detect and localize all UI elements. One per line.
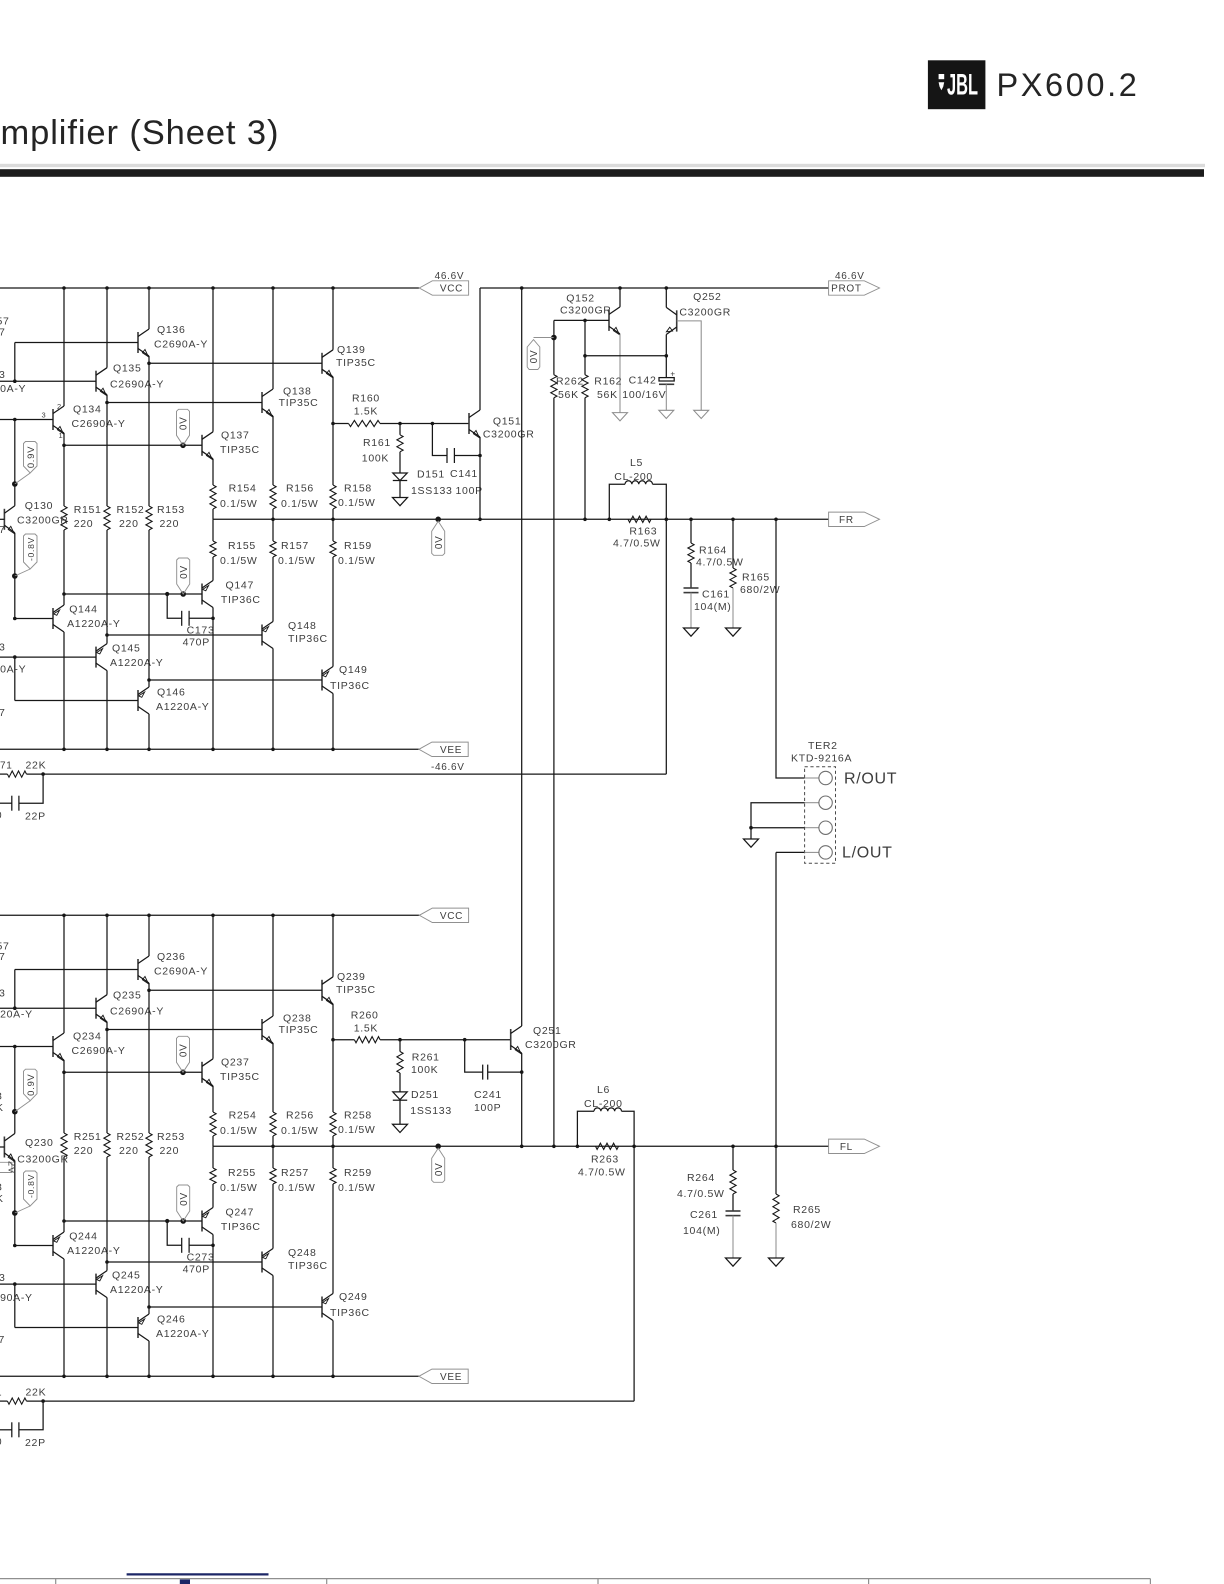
- junction col6 VEE: [331, 1375, 335, 1379]
- junction -0.8V flag node: [12, 573, 18, 579]
- junction col3 VEE: [147, 1375, 151, 1379]
- junction node A on R162: [583, 354, 587, 358]
- wire Q238 base line: [107, 1029, 262, 1031]
- svg-text:D151: D151: [417, 469, 445, 481]
- resistor R165 680/2W: [730, 519, 780, 628]
- ground for Q152 emitter: [613, 413, 628, 421]
- junction Q244 base on bias line: [13, 1244, 17, 1248]
- junction Q247 base tap: [62, 1219, 66, 1223]
- transistor Q130 C3200GR: [4, 500, 68, 534]
- svg-text:Q135: Q135: [113, 363, 142, 375]
- capacitor C241 100P: [465, 1040, 522, 1114]
- junction col5 VEE: [271, 748, 275, 752]
- wire TER2 ground pins: [751, 803, 805, 828]
- footer tick 1: [55, 1579, 57, 1584]
- svg-text:46.6V: 46.6V: [835, 271, 865, 282]
- wire Q246 collector to VEE: [148, 1341, 150, 1376]
- svg-text:R155: R155: [228, 540, 256, 552]
- svg-text:1: 1: [0, 1388, 2, 1399]
- wire Q234 emitter elbow: [63, 1060, 65, 1072]
- ground for TER2: [744, 839, 759, 847]
- wire Q136 emitter to node: [148, 356, 150, 363]
- resistor R154 0.1/5W: [210, 483, 258, 511]
- svg-text:R252: R252: [117, 1131, 145, 1143]
- wire output rail to R257: [272, 1146, 274, 1168]
- svg-text:-0.8V: -0.8V: [26, 537, 36, 561]
- svg-text:22K: 22K: [26, 760, 47, 772]
- wire Q149 collector to VEE: [332, 694, 334, 750]
- junction R262 on FL rail: [552, 1145, 556, 1149]
- ground for R265: [769, 1258, 784, 1266]
- transistor Q144 A1220A-Y: [53, 604, 121, 632]
- wire Q239 base line: [149, 989, 322, 991]
- svg-text:C2690A-Y: C2690A-Y: [0, 1292, 33, 1304]
- junction on VCC rail x273: [271, 914, 275, 918]
- svg-text:0.1/5W: 0.1/5W: [278, 1182, 315, 1194]
- junction Q148 base tap: [105, 633, 109, 637]
- svg-text:R259: R259: [344, 1167, 372, 1179]
- svg-text:0.1/5W: 0.1/5W: [338, 1182, 375, 1194]
- junction Q251 collector on PROT rail: [520, 286, 524, 290]
- junction on VCC rail x213: [211, 286, 215, 290]
- svg-text:L5: L5: [630, 457, 643, 469]
- wire output rail to R157: [272, 519, 274, 541]
- wire col2 VCC to Q235 collector: [106, 915, 108, 994]
- svg-text:220: 220: [119, 518, 139, 530]
- svg-text:R256: R256: [286, 1110, 314, 1122]
- svg-text:8: 8: [0, 1182, 3, 1194]
- svg-text:R157: R157: [281, 540, 309, 552]
- junction Q151 emitter on output rail: [478, 518, 482, 522]
- junction feedback 22P tap: [41, 1399, 45, 1403]
- svg-text:680/2W: 680/2W: [791, 1219, 831, 1231]
- wire Q146 collector to VEE: [148, 714, 150, 749]
- svg-text:A1220A-Y: A1220A-Y: [110, 657, 163, 669]
- footer navy line: [127, 1573, 269, 1575]
- svg-text:2: 2: [57, 402, 62, 411]
- svg-text:FL: FL: [840, 1142, 853, 1153]
- transistor Q138 TIP35C: [262, 386, 318, 417]
- net flag 0.9V: [15, 1069, 37, 1112]
- resistor R152 220: [104, 504, 145, 530]
- svg-text:+: +: [670, 370, 675, 379]
- junction C173 top tap: [211, 617, 215, 621]
- svg-text:56K: 56K: [597, 389, 618, 401]
- svg-text:0.1/5W: 0.1/5W: [220, 1125, 257, 1137]
- resistor R151 220: [61, 504, 102, 530]
- svg-text:C3200GR: C3200GR: [17, 515, 69, 527]
- transistor Q245 A1220A-Y: [96, 1270, 163, 1298]
- output flag FL: [829, 1139, 880, 1153]
- wire col1 to R251: [63, 1072, 65, 1133]
- wire col5 VCC to Q138 collector: [272, 288, 274, 389]
- wire Q247 base line: [64, 1220, 202, 1222]
- svg-text:100K: 100K: [362, 453, 389, 465]
- wire Q138 base line: [107, 402, 262, 404]
- svg-text:JBL: JBL: [947, 69, 978, 102]
- svg-text:0.1/5W: 0.1/5W: [220, 498, 257, 510]
- wire R260 to Q251 base: [380, 1039, 511, 1041]
- junction Q249 base tap: [147, 1305, 151, 1309]
- junction Q139 base node: [147, 362, 151, 366]
- junction Q152 collector on PROT rail: [618, 286, 622, 290]
- svg-text:R159: R159: [344, 540, 372, 552]
- wire Q249 base line: [149, 1306, 322, 1308]
- connector TER2 KTD-9216A outline: [805, 767, 836, 863]
- svg-text:0V: 0V: [434, 535, 445, 549]
- svg-text:Q146: Q146: [157, 687, 186, 699]
- svg-text:4.7/0.5W: 4.7/0.5W: [578, 1167, 626, 1179]
- transistor Q139 TIP35C: [322, 344, 376, 378]
- svg-text:100K: 100K: [411, 1064, 438, 1076]
- resistor R153 220: [146, 504, 185, 530]
- wire R160 to Q151 base: [380, 423, 469, 425]
- resistor R253 220: [146, 1131, 185, 1157]
- svg-text:A1220A-Y: A1220A-Y: [156, 1328, 209, 1340]
- net flag 0V at Q247 base: [177, 1185, 190, 1221]
- wire R256 to output rail: [272, 1136, 274, 1146]
- svg-text:A1220A-Y: A1220A-Y: [0, 1009, 33, 1021]
- wire Q237 emitter to R254: [212, 1086, 214, 1112]
- wire bias vertical top: [14, 970, 16, 1009]
- capacitor C141 100P: [432, 424, 482, 498]
- svg-text:TIP35C: TIP35C: [279, 397, 319, 409]
- junction 0.9V flag node: [12, 481, 18, 487]
- svg-text:2V: 2V: [6, 1161, 17, 1174]
- transistor Q135 C2690A-Y: [96, 363, 164, 396]
- svg-text:0V: 0V: [179, 1192, 190, 1206]
- svg-text:C3200GR: C3200GR: [483, 428, 535, 440]
- junction Q144 base on bias line: [13, 617, 17, 621]
- transistor Q251 C3200GR: [511, 1025, 577, 1054]
- junction C241 branch: [463, 1038, 467, 1042]
- wire drive node to R258: [332, 1040, 334, 1112]
- wire Q130 base stub: [0, 518, 4, 520]
- junction on VCC rail x333: [331, 914, 335, 918]
- resistor R156 0.1/5W: [270, 483, 319, 511]
- svg-text:A1220A-Y: A1220A-Y: [156, 701, 209, 713]
- ground for D251: [393, 1124, 408, 1132]
- svg-text:C3200GR: C3200GR: [679, 306, 731, 318]
- ground for C261: [726, 1258, 741, 1266]
- net flag 0V at Q152 base: [527, 338, 554, 370]
- svg-text:C2690A-Y: C2690A-Y: [72, 418, 126, 430]
- svg-text:R161: R161: [363, 437, 391, 449]
- capacitor 22P feedback: [0, 774, 46, 822]
- svg-text:0: 0: [0, 1437, 2, 1448]
- wire col2 to R252: [106, 1030, 108, 1134]
- ground for C161: [684, 628, 699, 636]
- svg-text:Q139: Q139: [337, 344, 366, 356]
- svg-text:R154: R154: [229, 483, 257, 495]
- transistor Q248 TIP36C: [262, 1247, 328, 1276]
- svg-text:D251: D251: [411, 1089, 439, 1101]
- transistor Q147 TIP36C: [202, 579, 261, 607]
- footer tick 2: [326, 1579, 328, 1584]
- svg-text:R254: R254: [229, 1110, 257, 1122]
- svg-text:0: 0: [0, 810, 2, 821]
- wire bias vertical lower: [14, 576, 16, 619]
- junction L5 left on rail: [608, 518, 612, 522]
- resistor R265 680/2W: [773, 1146, 831, 1258]
- wire col5 VCC to Q238 collector: [272, 915, 274, 1016]
- svg-text:Q238: Q238: [283, 1013, 312, 1025]
- wire col6 VCC to Q139 collector: [332, 288, 334, 350]
- wire Q251 collector vertical: [521, 288, 523, 1026]
- transistor Q246 A1220A-Y: [138, 1314, 209, 1342]
- wire Q252 collector: [665, 288, 667, 307]
- wire Q146 base: [15, 700, 138, 702]
- capacitor C273 470P: [167, 1221, 214, 1275]
- svg-text:-46.6V: -46.6V: [431, 762, 465, 773]
- junction 0V node Q237 base: [180, 1070, 186, 1076]
- capacitor C161 104(M): [684, 563, 732, 628]
- svg-text:PX600.2: PX600.2: [997, 67, 1140, 103]
- svg-text:FR: FR: [839, 515, 854, 526]
- wire col3 VCC to Q236 collector: [148, 915, 150, 956]
- svg-text:0.1/5W: 0.1/5W: [338, 1124, 375, 1136]
- FR channel VCC rail: [0, 287, 419, 289]
- transistor Q151 C3200GR: [469, 410, 534, 440]
- svg-text:TIP36C: TIP36C: [330, 1307, 370, 1319]
- svg-text:0V: 0V: [179, 416, 190, 430]
- footer tick 4: [868, 1579, 870, 1584]
- svg-text:22P: 22P: [25, 810, 46, 822]
- svg-text:R/OUT: R/OUT: [844, 771, 897, 788]
- svg-text:3: 3: [0, 988, 6, 1000]
- svg-text:0.1/5W: 0.1/5W: [220, 1182, 257, 1194]
- junction Q235 base bias line: [13, 1006, 17, 1010]
- svg-text:C161: C161: [702, 589, 730, 601]
- wire Q136 base: [15, 342, 138, 344]
- junction 0V stub node: [551, 335, 557, 341]
- svg-text:R253: R253: [157, 1131, 185, 1143]
- wire feedback to output rail: [633, 1146, 635, 1401]
- transistor Q244 A1220A-Y: [53, 1231, 121, 1259]
- wire to Q146 emitter: [148, 680, 150, 687]
- junction 0V node Q247 base: [180, 1218, 186, 1224]
- VEE rail: [0, 748, 419, 750]
- svg-text:100P: 100P: [474, 1102, 501, 1114]
- wire Q244 collector to VEE: [63, 1259, 65, 1376]
- wire Q234 base: [0, 1046, 53, 1048]
- gray scan line above rule: [0, 164, 1205, 167]
- wire col4 VCC to Q137 collector: [212, 288, 214, 432]
- resistor R164 4.7/0.5W: [688, 519, 744, 568]
- svg-text:Q147: Q147: [226, 579, 255, 591]
- wire Q148 collector to VEE: [272, 649, 274, 750]
- svg-text:A1220A-Y: A1220A-Y: [110, 1284, 163, 1296]
- wire Q148 base line: [107, 634, 262, 636]
- wire R259 to Q249: [332, 1184, 334, 1294]
- wire output rail to R155: [212, 519, 214, 541]
- junction Q234 base bias line: [13, 1045, 17, 1049]
- svg-text:R152: R152: [117, 504, 145, 516]
- svg-text:A1220A-Y: A1220A-Y: [67, 618, 120, 630]
- svg-text:0.9V: 0.9V: [26, 446, 37, 468]
- junction 0V node Q137 base: [180, 443, 186, 449]
- svg-text:0.1/5W: 0.1/5W: [220, 555, 257, 567]
- footer navy logo fragment: [180, 1579, 190, 1584]
- FR output rail: [213, 518, 829, 520]
- svg-text:Q234: Q234: [73, 1031, 102, 1043]
- svg-text:R251: R251: [74, 1131, 102, 1143]
- connector TER2 pin 4 L/OUT: [805, 851, 819, 853]
- svg-text:Q236: Q236: [157, 951, 186, 963]
- svg-text:Q239: Q239: [337, 971, 366, 983]
- junction Q135 base bias line: [13, 379, 17, 383]
- wire Q134 emitter elbow: [63, 433, 65, 445]
- wire L/OUT vertical: [775, 852, 777, 1146]
- wire to Q145 emitter: [106, 635, 108, 644]
- wire Q252 base to ground: [677, 321, 702, 410]
- svg-text:22K: 22K: [26, 1387, 47, 1399]
- resistor R259 0.1/5W: [330, 1167, 376, 1194]
- wire Q147 base line: [64, 593, 202, 595]
- svg-text:Q130: Q130: [25, 500, 54, 512]
- transistor Q238 TIP35C: [262, 1013, 318, 1044]
- wire Q248 collector to VEE: [272, 1276, 274, 1377]
- junction R161 top: [398, 422, 402, 426]
- svg-text:71: 71: [0, 761, 13, 772]
- svg-text:0V: 0V: [434, 1162, 445, 1176]
- junction Q138 base node: [105, 401, 109, 405]
- svg-text:100/16V: 100/16V: [622, 389, 666, 401]
- wire Q152 base elbow down: [553, 320, 555, 337]
- svg-text:Q249: Q249: [339, 1291, 368, 1303]
- transistor Q247 TIP36C: [202, 1206, 261, 1234]
- transistor Q136 C2690A-Y: [138, 324, 208, 357]
- protection flag PROT: [829, 281, 880, 295]
- wire Q235 base: [0, 1007, 96, 1009]
- wire Q236 emitter to node: [148, 983, 150, 990]
- svg-text:1.5K: 1.5K: [354, 406, 378, 418]
- svg-text:C141: C141: [450, 468, 478, 480]
- net flag 0V at Q237 base: [177, 1036, 190, 1072]
- wire Q152 collector: [619, 288, 621, 307]
- svg-text:Q152: Q152: [566, 293, 595, 305]
- resistor 22K feedback: [0, 760, 46, 778]
- svg-text:R158: R158: [344, 483, 372, 495]
- footer tick 5: [1149, 1579, 1151, 1584]
- svg-text:R263: R263: [591, 1153, 619, 1165]
- wire R252 to Q245: [106, 1157, 108, 1262]
- transistor Q234 C2690A-Y: [53, 1031, 126, 1061]
- JBL logo box: [928, 60, 986, 109]
- resistor R257 0.1/5W: [270, 1167, 316, 1194]
- capacitor C142 100/16V: [622, 356, 675, 411]
- wire R258 to output rail: [332, 1136, 334, 1146]
- wire feedback to output rail: [665, 519, 667, 774]
- junction node A at C142: [665, 354, 669, 358]
- svg-text:TIP35C: TIP35C: [220, 444, 260, 456]
- svg-text:mplifier (Sheet 3): mplifier (Sheet 3): [1, 114, 280, 152]
- resistor R161 100K: [362, 424, 403, 465]
- svg-text:R264: R264: [687, 1172, 715, 1184]
- junction R162 top on Q152 base: [583, 319, 587, 323]
- svg-text:VEE: VEE: [440, 745, 462, 756]
- svg-text:VCC: VCC: [440, 911, 463, 922]
- svg-text:7: 7: [0, 707, 6, 719]
- svg-text:Q251: Q251: [533, 1025, 562, 1037]
- svg-text:0.1/5W: 0.1/5W: [338, 555, 375, 567]
- wire Q246 base: [15, 1327, 138, 1329]
- wire Q239 emitter down: [332, 1004, 334, 1040]
- wire Q152 emitter to ground: [619, 334, 621, 413]
- svg-text:4.7/0.5W: 4.7/0.5W: [613, 538, 661, 550]
- wire to Q144 emitter: [63, 594, 65, 605]
- wire R154 to output rail: [212, 509, 214, 519]
- capacitor 22P feedback: [0, 1401, 46, 1449]
- wire col3 to R153: [148, 363, 150, 506]
- wire R159 to Q149: [332, 557, 334, 667]
- wire R155 to Q147: [212, 557, 214, 581]
- junction Q238 base node: [105, 1028, 109, 1032]
- wire R156 to output rail: [272, 509, 274, 519]
- wire to Q246 emitter: [148, 1307, 150, 1314]
- svg-text:TIP36C: TIP36C: [288, 1260, 328, 1272]
- wire col2 to R152: [106, 403, 108, 507]
- svg-text:K: K: [0, 1102, 4, 1114]
- svg-text:1: 1: [59, 431, 64, 440]
- junction col4 VEE: [211, 1375, 215, 1379]
- svg-text:R260: R260: [351, 1009, 379, 1021]
- net flag fragment 2V: [0, 1161, 17, 1174]
- svg-text:L/OUT: L/OUT: [842, 845, 893, 862]
- svg-text:0.1/5W: 0.1/5W: [338, 497, 375, 509]
- svg-text:C261: C261: [690, 1209, 718, 1221]
- wire col1 VCC to Q134 collector: [63, 288, 65, 406]
- svg-text:3: 3: [0, 369, 6, 381]
- wire Q244 base: [15, 1245, 53, 1247]
- junction R162 on FR rail: [583, 518, 587, 522]
- junction col1 node at Q237 base line: [62, 1071, 66, 1075]
- connector TER2 pin 3 GND: [805, 827, 819, 829]
- junction Q145 base on bias line: [13, 655, 17, 659]
- svg-text:VCC: VCC: [440, 284, 463, 295]
- junction Q245 base on bias line: [13, 1282, 17, 1286]
- ground for R165: [726, 628, 741, 636]
- wire to Q130 collector: [14, 484, 16, 506]
- wire Q139 emitter down: [332, 377, 334, 424]
- svg-text:R262: R262: [556, 375, 584, 387]
- svg-text:4.7/0.5W: 4.7/0.5W: [677, 1188, 725, 1200]
- resistor R262 56K: [551, 338, 584, 402]
- junction Q251 emitter on FL rail: [520, 1145, 524, 1149]
- junction feedback 22P tap: [41, 772, 45, 776]
- junction C273 corner: [165, 1219, 169, 1223]
- svg-text:7: 7: [0, 327, 6, 339]
- JBL logo hook: [939, 74, 945, 79]
- junction Q239 base node: [147, 989, 151, 993]
- junction R264 on FL rail: [731, 1145, 735, 1149]
- transistor Q134 C2690A-Y: [53, 404, 126, 434]
- wire col2 VCC to Q135 collector: [106, 288, 108, 368]
- wire to Q245 emitter: [106, 1262, 108, 1271]
- junction col2 VEE: [105, 748, 109, 752]
- junction 0.9V flag node: [12, 1109, 18, 1115]
- junction on VCC rail x149: [147, 286, 151, 290]
- svg-text:Q235: Q235: [113, 990, 142, 1002]
- wire R253 to Q246: [148, 1157, 150, 1307]
- wire Q137 emitter to R154: [212, 459, 214, 485]
- svg-text:Q138: Q138: [283, 386, 312, 398]
- wire Q151 collector to PROT rail: [479, 288, 481, 410]
- wire R158 to output rail: [332, 509, 334, 519]
- wire bias vertical bottom: [14, 657, 16, 700]
- svg-text:1.5K: 1.5K: [354, 1023, 378, 1035]
- wire col1 to R151: [63, 445, 65, 506]
